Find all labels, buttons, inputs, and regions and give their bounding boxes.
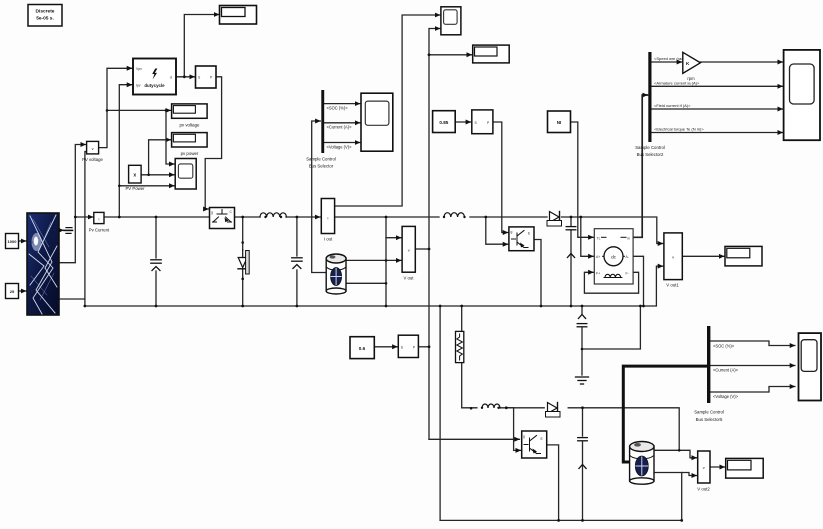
wire V out output vertical to scope1 display1 PWM2 IGBT3 gate — [415, 29, 519, 440]
MPPT dutycycle block U1 — [133, 59, 176, 95]
svg-text:<Voltage (V)>: <Voltage (V)> — [327, 144, 353, 149]
wire PV voltage block to MPPT V input — [99, 68, 132, 147]
svg-text:1000: 1000 — [8, 239, 18, 244]
wire bottom negative rail — [85, 266, 663, 306]
wire battery2 minus to lower rail and V out2 — [654, 473, 697, 521]
wire IGBT2 emitter to bottom rail — [534, 240, 541, 307]
scope2 — [175, 159, 196, 190]
svg-text:Sample Control: Sample Control — [635, 145, 665, 150]
wire capacitor C3 branch — [582, 408, 584, 521]
wire PV minus riser — [60, 152, 86, 307]
bus selector1 bar — [321, 90, 324, 153]
svg-text:v: v — [408, 248, 410, 253]
svg-text:v: v — [703, 465, 705, 470]
wire constant2 to PWM2 — [374, 346, 429, 348]
svg-text:<SOC (%)>: <SOC (%)> — [713, 343, 735, 348]
bus selector1 signal labels — [306, 105, 352, 168]
svg-text:i: i — [327, 215, 328, 220]
bus selector2 signal labels — [635, 56, 704, 157]
constant 1000 irradiance — [6, 234, 19, 249]
IGBT Q2 — [509, 227, 534, 251]
wire bus selector5 Voltage to scope5 — [710, 387, 795, 393]
svg-text:g: g — [523, 434, 525, 438]
svg-text:25: 25 — [10, 289, 15, 294]
wire bus selector2 field current to scope4 — [652, 108, 783, 110]
svg-text:pv power: pv power — [181, 151, 199, 156]
wire constant 1000 to PV input1 — [19, 240, 27, 242]
wire bus selector5 Current to scope5 — [710, 365, 795, 367]
wire PV measurement m stub — [60, 229, 64, 231]
svg-text:PV Power: PV Power — [125, 186, 145, 191]
wire rail L2 to diode D2 and IGBT2 branch — [470, 217, 547, 244]
wire MPPT d output to PWM sat block — [176, 76, 195, 78]
svg-text:A-: A- — [626, 255, 629, 259]
wire upper bottom rail down to lower bottom rail — [439, 306, 441, 520]
wire bus selector2 torque to scope4 — [652, 132, 783, 134]
wire PV current to MPPT I input — [119, 85, 132, 217]
PV Current measurement block — [89, 212, 110, 232]
svg-text:g: g — [211, 211, 213, 215]
wire bus selector2 armature current to scope4 — [652, 85, 783, 87]
svg-text:<Voltage (V)>: <Voltage (V)> — [713, 394, 739, 399]
V out2 voltage measurement — [697, 451, 710, 492]
svg-text:PV voltage: PV voltage — [82, 157, 103, 162]
svg-text:Sample Control: Sample Control — [306, 156, 336, 161]
display3 — [726, 458, 764, 478]
diode D3 — [546, 403, 561, 418]
svg-text:Vpv: Vpv — [136, 67, 142, 71]
PWM generator2 S P — [398, 335, 418, 357]
display2 — [725, 246, 762, 266]
wire capacitor C4 branch — [570, 217, 572, 306]
wire rail L1 to I out — [286, 216, 320, 218]
svg-text:Discrete: Discrete — [36, 9, 55, 15]
wire armature A minus to bottom rail — [633, 256, 643, 306]
wire to scope2 input3 — [119, 185, 174, 187]
wire main positive rail PV to IGBT1 — [104, 216, 209, 218]
I out current measurement — [321, 199, 334, 242]
svg-text:g: g — [511, 230, 513, 234]
wire bus selector1 signal Current to scope3 — [324, 122, 360, 124]
IGBT Q3 — [522, 431, 547, 458]
wire PV plus riser — [60, 145, 93, 263]
gain K rpm — [683, 52, 701, 81]
svg-text:x: x — [133, 173, 136, 179]
inductor L1 — [260, 213, 286, 217]
wire rail branch to armature A plus — [581, 217, 594, 256]
constant2 — [350, 337, 374, 359]
wire PWM to IGBT1 gate — [205, 77, 221, 209]
svg-text:<Field current if (A)>: <Field current if (A)> — [654, 103, 691, 108]
constant 0.85 — [433, 111, 456, 133]
svg-text:dutycycle: dutycycle — [144, 83, 165, 88]
PV Power product block — [125, 165, 145, 191]
diode D1 — [238, 250, 249, 277]
svg-text:F-: F- — [626, 271, 629, 275]
wire PV power to scope2 input2 — [141, 174, 174, 176]
PV array block — [27, 213, 59, 315]
svg-text:I out: I out — [324, 237, 333, 242]
wire capacitor C5 ground chain — [582, 306, 640, 375]
V out voltage measurement — [402, 226, 415, 280]
wire diode D1 branch — [242, 217, 244, 306]
wire DC machine m to bus selector2 — [633, 95, 647, 237]
constant 25 temperature — [6, 284, 19, 299]
wire NI block to DC machine TL — [571, 122, 594, 237]
bus selector5 bar — [707, 326, 710, 403]
wire node d to display0 — [184, 15, 219, 77]
wire battery2 measurement thick to bus selector5 — [623, 366, 705, 462]
wire PWM1 to IGBT2 gate — [493, 122, 508, 233]
svg-text:d: d — [170, 75, 172, 79]
wire bus selector5 SOC to scope5 — [710, 341, 795, 346]
wire V out2 to display3 — [710, 466, 725, 468]
diode D2 — [547, 212, 562, 227]
display1 — [473, 45, 510, 63]
wire branch to IGBT3 collector — [506, 408, 520, 451]
svg-text:Pv Current: Pv Current — [89, 228, 110, 233]
wire resistor chain from bottom rail — [462, 306, 477, 408]
terminator on PV m port — [64, 228, 73, 234]
capacitor C4 — [566, 227, 576, 258]
svg-text:NI: NI — [557, 120, 562, 125]
wire IGBT3 emitter to lower bottom rail — [547, 445, 559, 521]
pv power display — [172, 133, 208, 157]
wire rail I out to inductor L2 — [335, 216, 439, 218]
svg-text:<SOC (%)>: <SOC (%)> — [327, 105, 349, 110]
wire rail IGBT1 to inductor L1 — [232, 216, 260, 218]
wire capacitor C1 branch — [155, 217, 157, 306]
svg-text:m: m — [53, 228, 56, 232]
wire node to pv voltage display — [107, 109, 171, 111]
V out1 voltage measurement — [664, 233, 682, 288]
wire battery1 minus to bottom rail — [346, 282, 386, 284]
wire field winding loop — [584, 272, 638, 293]
wire constant to PWM1 — [455, 121, 471, 123]
PWM saturation block — [196, 66, 217, 88]
svg-text:v: v — [672, 254, 674, 259]
wire diode D3 to battery2 node — [568, 408, 679, 451]
svg-text:A+: A+ — [596, 255, 600, 259]
battery1 — [326, 254, 346, 294]
wire capacitor C2 branch — [296, 217, 298, 306]
ground G1 — [576, 377, 589, 384]
inductor L2 — [444, 213, 464, 217]
svg-text:<Electrical torque Te (N m)>: <Electrical torque Te (N m)> — [654, 127, 704, 132]
wire bus selector1 signal Voltage to scope3 — [324, 142, 360, 144]
wire rail branch to V out plus — [386, 217, 401, 306]
svg-text:<Current (A)>: <Current (A)> — [713, 368, 739, 373]
svg-text:Ipv: Ipv — [136, 84, 141, 88]
svg-text:T: T — [31, 291, 33, 295]
capacitor C3 — [578, 438, 588, 469]
svg-text:V out2: V out2 — [697, 487, 710, 492]
DC machine — [594, 229, 633, 284]
svg-text:V out1: V out1 — [666, 283, 679, 288]
capacitor C5 — [577, 315, 587, 327]
wire bus selector1 signal SOC to scope3 — [324, 103, 360, 105]
scope3 — [361, 93, 393, 151]
svg-text:V out: V out — [403, 275, 414, 280]
wire lower bottom rail — [440, 519, 682, 521]
wire inductor L3 to diode D3 — [500, 407, 544, 409]
bus selector5 signal labels — [694, 343, 738, 422]
wire bus selector2 speed signal to gain — [652, 61, 682, 63]
inductor L3 — [482, 404, 500, 408]
PWM generator1 S P — [472, 110, 493, 134]
wire rail D2 to V out1 plus — [562, 217, 663, 244]
wire battery2 plus to V out2 — [654, 450, 697, 458]
display0 duty cycle display — [220, 6, 257, 25]
wire constant 25 to PV input2 — [19, 290, 27, 292]
battery2 — [630, 442, 654, 485]
PV voltage measurement block — [82, 141, 103, 161]
scope5 — [799, 333, 822, 400]
powergui block — [28, 5, 62, 27]
svg-text:<Current (A)>: <Current (A)> — [327, 125, 353, 130]
wire PV power to pv power display — [149, 140, 171, 175]
svg-text:F+: F+ — [596, 271, 600, 275]
wire V out1 to display2 — [682, 255, 724, 257]
svg-text:rpm: rpm — [687, 76, 695, 81]
svg-text:Bus Selector: Bus Selector — [309, 164, 334, 169]
scope4 — [784, 50, 820, 140]
svg-text:0.85: 0.85 — [439, 120, 448, 125]
svg-text:TL: TL — [597, 237, 601, 241]
svg-text:Sample Control: Sample Control — [694, 410, 724, 415]
pv voltage display — [172, 104, 208, 128]
wire I out i to scope1 input1 — [335, 15, 440, 206]
svg-text:m: m — [627, 237, 630, 241]
svg-text:0.6: 0.6 — [359, 346, 366, 351]
svg-text:pv voltage: pv voltage — [179, 123, 200, 128]
svg-text:i: i — [98, 216, 99, 221]
svg-text:v: v — [92, 146, 94, 151]
svg-text:dc: dc — [611, 254, 617, 259]
svg-text:Bus Selector2: Bus Selector2 — [637, 152, 664, 157]
wire gain to scope4 input1 — [700, 61, 782, 63]
wire to scope2 input1 — [166, 110, 174, 164]
svg-text:Bus Selector5: Bus Selector5 — [696, 417, 723, 422]
svg-text:5e-05 s.: 5e-05 s. — [36, 16, 54, 22]
capacitor C1 — [151, 260, 161, 271]
bus selector2 bar — [648, 52, 651, 142]
NI constant block — [548, 111, 571, 133]
wire battery1 plus to V out minus — [346, 259, 401, 261]
wire battery1 m to bus selector1 — [312, 121, 327, 273]
IGBT Q1 — [210, 208, 235, 229]
capacitor C2 — [292, 258, 302, 269]
scope1 — [441, 7, 461, 35]
resistor R1 — [456, 331, 464, 362]
